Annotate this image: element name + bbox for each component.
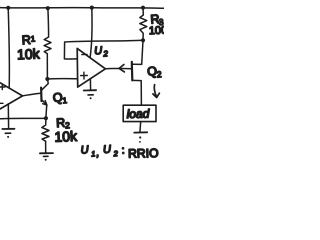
svg-text:load: load: [126, 107, 149, 122]
ground U2: [84, 79, 96, 99]
svg-text::: :: [121, 144, 125, 156]
node emitter: [44, 116, 48, 120]
gate arrowhead: [119, 65, 124, 72]
node R3 top: [141, 6, 145, 10]
node sense / R3 bottom: [141, 38, 145, 42]
ground R2: [40, 141, 53, 161]
node top-left: [6, 6, 10, 10]
wire feedback emitter node to left edge: [0, 117, 46, 120]
svg-text:2: 2: [112, 149, 119, 158]
wire left supply rail to U1: [8, 8, 9, 88]
wire U2 output to Q2 gate: [105, 67, 131, 69]
wire collector node to U2 + input: [47, 78, 77, 80]
node U2 supply top: [90, 6, 94, 10]
wire sense node to U2 - input: [64, 40, 143, 59]
load box: [123, 105, 156, 121]
op-amp U1: [0, 77, 23, 114]
svg-text:100k: 100k: [149, 24, 164, 37]
node R1 top: [46, 6, 50, 10]
svg-text:10k: 10k: [54, 128, 78, 145]
wire U1 output to Q1 base: [23, 93, 41, 96]
resistor R3: [140, 8, 147, 41]
transistor Q2: [132, 40, 143, 105]
caption U1 U2 RRIO: [80, 144, 158, 161]
node collector / R1 bottom: [45, 77, 49, 81]
svg-text:1: 1: [91, 149, 96, 158]
svg-text:U: U: [94, 45, 103, 57]
op-amp U2: [77, 48, 105, 87]
ground U1: [2, 104, 14, 138]
svg-text:U: U: [80, 144, 89, 157]
resistor R2: [42, 118, 49, 141]
current arrow: [153, 85, 160, 98]
svg-text:U: U: [103, 144, 112, 157]
svg-text:2: 2: [156, 69, 162, 79]
svg-text:1: 1: [31, 34, 36, 43]
svg-text:RRIO: RRIO: [128, 146, 159, 161]
resistor R1: [44, 8, 51, 79]
svg-text:2: 2: [102, 49, 108, 58]
svg-text:10k: 10k: [17, 46, 41, 63]
wire U2 supply from top rail: [90, 8, 92, 58]
ground load: [134, 122, 147, 143]
svg-text:1: 1: [62, 96, 68, 105]
wire top rail: [0, 7, 164, 10]
svg-text:,: ,: [96, 147, 100, 159]
transistor Q1: [41, 79, 48, 118]
